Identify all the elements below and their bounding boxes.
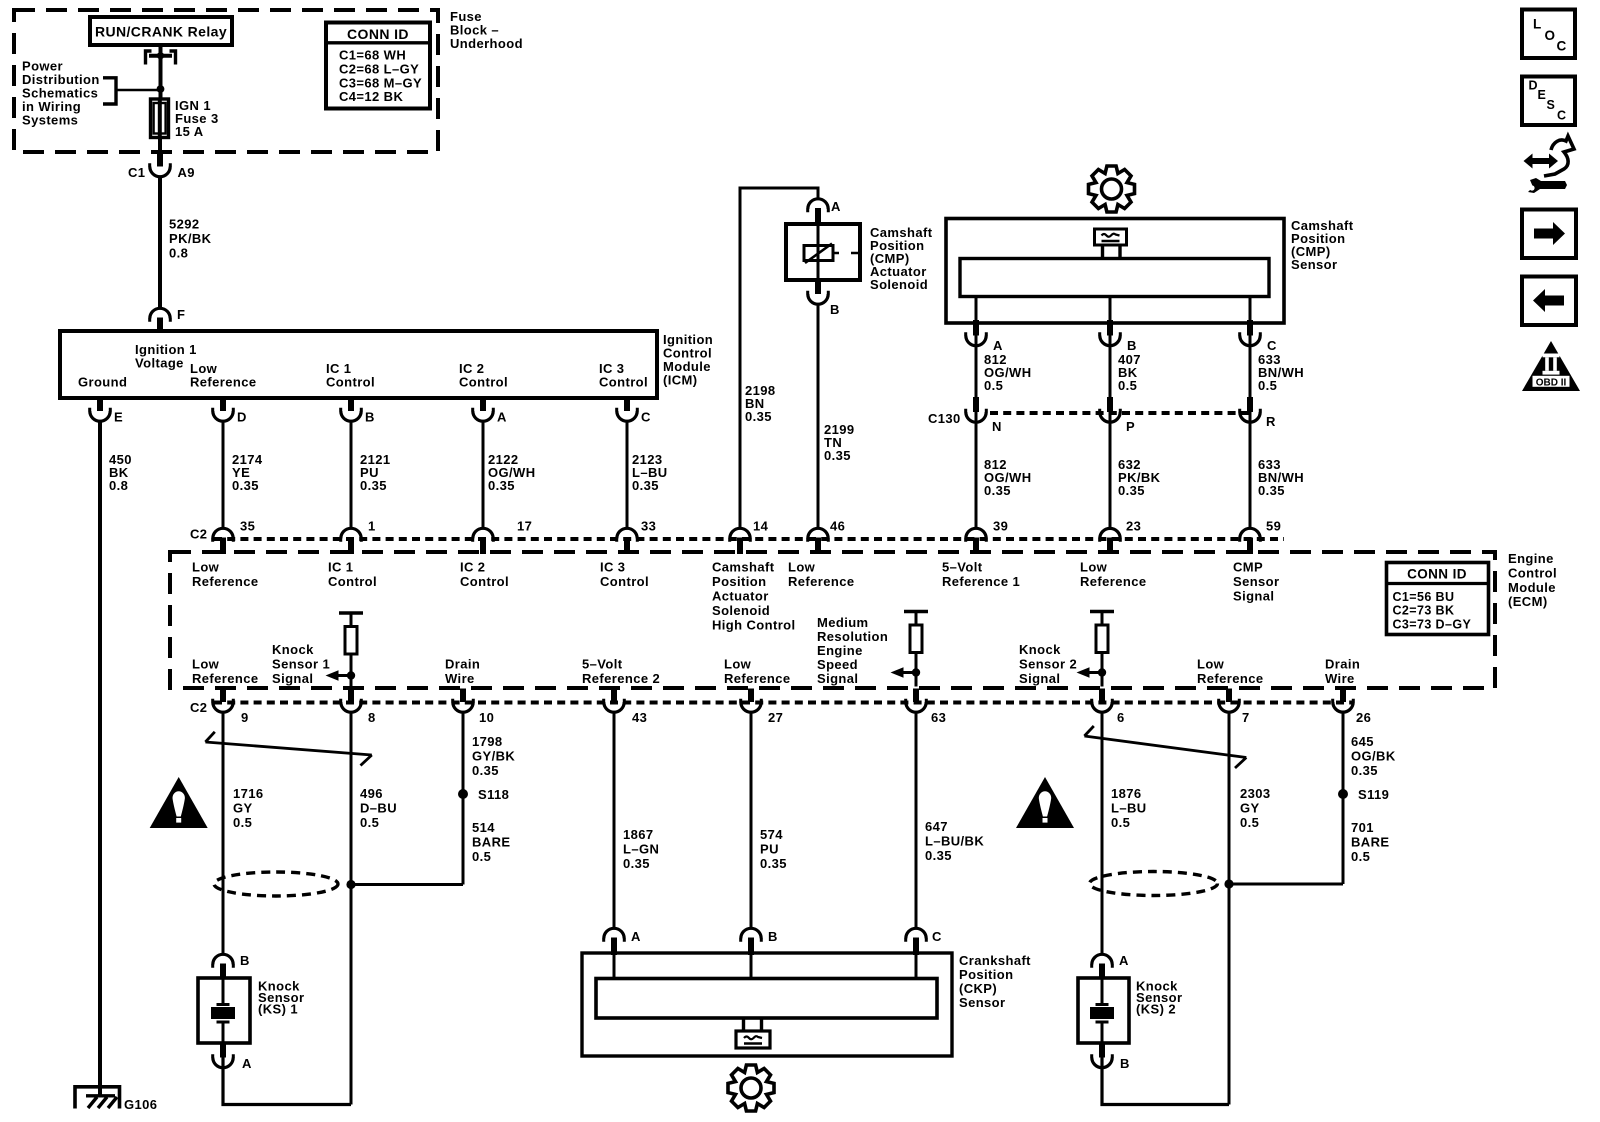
svg-text:OBD II: OBD II [1536,378,1567,389]
wire drain to shield junction KS2 [1229,883,1343,886]
svg-text:CONN ID: CONN ID [347,26,409,42]
svg-text:59: 59 [1266,519,1281,534]
wire 574 PU [750,712,753,928]
label IC 3 Control (pin 33) [600,560,649,590]
wire 633 upper [1249,336,1252,413]
wire label 2122 OG/WH 0.35 [488,452,536,493]
svg-text:Wire: Wire [1325,671,1355,686]
svg-text:D: D [237,410,247,425]
wire 633 lower [1249,412,1252,528]
connector ECM pin 39 [966,528,987,554]
svg-text:Signal: Signal [817,671,858,686]
wire label 2303 GY 0.5 [1240,786,1271,830]
svg-text:Control: Control [326,375,375,390]
connector ECM pin 23 [1100,528,1121,554]
svg-text:701: 701 [1351,820,1374,835]
connector ECM pin 46 [808,528,829,554]
wire 647 L-BU/BK [915,712,918,928]
svg-text:L: L [1533,17,1542,32]
engine control module ECM dashed box [170,552,1495,688]
wire 812 upper [975,336,978,413]
svg-text:BARE: BARE [1351,835,1389,850]
icon OBD II warning triangle [1522,341,1580,391]
camshaft position CMP sensor box [946,219,1284,324]
wire label 450 BK 0.8 [109,452,132,493]
svg-text:Low: Low [724,657,752,672]
gear icon below CKP sensor [728,1065,774,1111]
svg-text:C3=68 M–GY: C3=68 M–GY [339,75,422,90]
wire 2121 [350,421,353,528]
connector C130 pin N [966,397,987,422]
svg-text:(ICM): (ICM) [663,373,698,388]
svg-text:N: N [992,419,1002,434]
label Knock Sensor 1 Signal [272,642,330,686]
label IC 3 Control (ICM) [599,361,648,390]
svg-text:1867: 1867 [623,827,654,842]
wire label 812 OG/WH 0.5 [984,352,1032,393]
CKP sensor hall element [736,1018,770,1048]
svg-text:Signal: Signal [1019,671,1060,686]
label IC 1 Control (pin 1) [328,560,377,590]
node shield junction KS2 [1224,879,1233,888]
wire label 514 BARE 0.5 [472,820,510,864]
wire label 407 BK 0.5 [1118,352,1141,393]
svg-text:0.5: 0.5 [233,815,252,830]
wire label 1716 GY 0.5 [233,786,264,830]
svg-text:Knock: Knock [1019,642,1061,657]
svg-text:Actuator: Actuator [712,589,769,604]
svg-text:F: F [177,307,185,322]
label Engine Control Module (ECM) [1508,551,1557,609]
svg-text:IC 3: IC 3 [600,560,625,575]
label Low Reference (pin 27) [724,657,790,687]
label IGN 1 Fuse 3 15 A [175,98,219,139]
shield ellipse KS1 [214,872,338,896]
svg-text:Voltage: Voltage [135,356,184,371]
shield ellipse KS2 [1090,872,1218,896]
wire label 647 L-BU/BK 0.35 [925,819,984,863]
crankshaft position CKP sensor box [582,953,952,1056]
svg-text:Sensor: Sensor [1291,257,1337,272]
svg-text:Camshaft: Camshaft [712,560,775,575]
ignition control module ICM box [60,331,657,398]
svg-text:Signal: Signal [1233,589,1274,604]
svg-text:S118: S118 [478,787,509,802]
fuse block CONN ID table [326,23,430,109]
svg-text:L–BU/BK: L–BU/BK [925,834,984,849]
svg-text:1798: 1798 [472,734,503,749]
svg-text:C3=73 D–GY: C3=73 D–GY [1393,617,1472,631]
wire label 645 OG/BK 0.35 [1351,734,1396,778]
svg-text:0.35: 0.35 [232,478,259,493]
CMP sensor inner bar [960,259,1269,297]
svg-text:0.5: 0.5 [984,378,1003,393]
wire label 633 BN/WH 0.35 lower [1258,457,1304,498]
svg-text:C1=68 WH: C1=68 WH [339,48,406,63]
label Drain Wire (pin 10) [445,657,480,687]
icon adjust wrench with arrows [1524,136,1575,193]
wire label 2199 TN 0.35 [824,422,855,463]
wire 496 D-BU [350,712,353,1105]
label IC 2 Control (pin 17) [460,560,509,590]
svg-text:0.35: 0.35 [1351,763,1378,778]
label Ignition 1 Voltage [135,342,197,371]
svg-text:0.35: 0.35 [488,478,515,493]
connector ECM pin 14 [730,528,751,554]
wire label 2198 BN 0.35 [745,383,776,424]
svg-text:15 A: 15 A [175,124,204,139]
svg-text:1: 1 [368,519,376,534]
C2 top dotted connector line [214,537,1284,541]
connector ECM pin 17 [473,528,494,554]
connector pin A at CMP sensor [966,320,987,346]
wire label 496 D-BU 0.5 [360,786,397,830]
ECM CONN ID table [1387,563,1489,635]
svg-text:Sensor: Sensor [1233,574,1279,589]
svg-text:Control: Control [460,574,509,589]
connector A at CKP sensor [604,928,625,955]
fuse block - underhood dashed box [14,10,438,152]
resistor R3 knock sensor 2 input [1077,612,1115,687]
resistor R1 knock sensor 1 input [326,613,364,690]
svg-text:5–Volt: 5–Volt [582,657,623,672]
knock sensor KS2 box [1078,978,1129,1043]
connector ECM pin 6 (bottom) [1092,689,1113,713]
connector pin C at ICM bottom [617,396,638,421]
wire label 701 BARE 0.5 [1351,820,1389,864]
svg-text:0.5: 0.5 [1351,849,1370,864]
svg-text:E: E [1538,88,1547,102]
icon forward arrow box [1522,210,1576,259]
svg-text:7: 7 [1242,710,1250,725]
svg-text:14: 14 [753,519,769,534]
svg-text:5–Volt: 5–Volt [942,560,983,575]
svg-text:0.5: 0.5 [472,849,491,864]
svg-text:B: B [1120,1056,1130,1071]
connector A at CMP actuator solenoid [808,199,829,226]
connector A at knock sensor 2 [1092,954,1113,979]
twisted pair marker KS1 [205,732,371,766]
svg-text:C: C [641,410,651,425]
svg-text:(KS) 1: (KS) 1 [258,1002,298,1017]
wire 1876 L-BU [1101,712,1104,954]
svg-text:0.35: 0.35 [360,478,387,493]
wire relay box to contact [159,45,163,57]
label Low Reference (pin 35) [192,560,258,590]
svg-text:Reference: Reference [190,375,256,390]
svg-text:Signal: Signal [272,671,313,686]
wire label 1867 L-GN 0.35 [623,827,659,871]
svg-text:Wire: Wire [445,671,475,686]
knock sensor KS1 box [198,978,250,1043]
ground G106 symbol [75,1087,120,1109]
svg-text:647: 647 [925,819,948,834]
svg-text:0.8: 0.8 [109,478,128,493]
svg-text:Sensor 1: Sensor 1 [272,657,330,672]
svg-text:1716: 1716 [233,786,264,801]
svg-text:CMP: CMP [1233,560,1263,575]
svg-text:Resolution: Resolution [817,629,888,644]
svg-text:E: E [114,410,123,425]
connector pin E at ICM bottom [90,396,111,421]
svg-text:0.35: 0.35 [745,409,772,424]
label Drain Wire (pin 26) [1325,657,1360,687]
svg-text:C2: C2 [190,527,207,542]
wire 5292 to ICM [158,177,162,309]
svg-text:(KS) 2: (KS) 2 [1136,1002,1176,1017]
wire 2123 [626,421,629,528]
wire 2122 [482,421,485,528]
connector B at CKP sensor [741,928,762,955]
svg-text:Underhood: Underhood [450,36,523,51]
svg-text:P: P [1126,419,1135,434]
svg-text:Control: Control [459,375,508,390]
svg-text:Systems: Systems [22,113,78,128]
wire label 2174 YE 0.35 [232,452,263,493]
svg-text:A9: A9 [178,165,195,180]
connector C1 pin A9 [150,151,171,177]
warning triangle 1 [150,777,208,828]
svg-text:Reference: Reference [788,574,854,589]
wire label 2121 PU 0.35 [360,452,391,493]
svg-text:0.8: 0.8 [169,246,188,261]
svg-text:0.35: 0.35 [632,478,659,493]
connector A at knock sensor 1 [213,1043,234,1068]
connector ECM pin 43 (bottom) [604,689,625,713]
svg-text:26: 26 [1356,710,1371,725]
connector ECM pin 1 [341,528,362,554]
svg-text:C: C [932,929,942,944]
svg-text:Reference: Reference [1197,671,1263,686]
svg-text:8: 8 [368,710,376,725]
svg-text:C1: C1 [128,165,145,180]
svg-text:5292: 5292 [169,217,200,232]
svg-text:1876: 1876 [1111,786,1142,801]
icon DESC box [1522,77,1575,126]
connector ECM pin 9 (bottom) [213,689,234,713]
wire 1867 L-GN [613,712,616,928]
svg-text:C: C [1557,39,1567,54]
label Ignition Control Module (ICM) [663,332,713,388]
svg-text:Solenoid: Solenoid [870,277,928,292]
splice S119 [1338,789,1348,799]
svg-text:23: 23 [1126,519,1141,534]
connector ECM pin 7 (bottom) [1219,689,1240,713]
svg-text:GY/BK: GY/BK [472,749,515,764]
label Fuse Block - Underhood [450,9,523,51]
svg-text:Position: Position [959,967,1013,982]
svg-text:C130: C130 [928,411,961,426]
svg-text:A: A [831,199,841,214]
svg-text:B: B [768,929,778,944]
label Knock Sensor 2 Signal [1019,642,1077,686]
node shield junction KS1 [346,880,355,889]
label Crankshaft Position (CKP) Sensor [959,953,1031,1010]
icon LOC box [1522,10,1575,59]
svg-text:Low: Low [192,657,220,672]
svg-text:27: 27 [768,710,783,725]
svg-text:Engine: Engine [1508,551,1554,566]
svg-text:C4=12 BK: C4=12 BK [339,89,403,104]
wire to power distribution bracket [117,89,159,91]
node junction to power distribution [157,85,165,93]
connector pin B at CMP sensor [1100,320,1121,346]
svg-text:IC 1: IC 1 [328,560,353,575]
connector ECM pin 27 (bottom) [741,689,762,713]
svg-text:10: 10 [479,710,494,725]
warning triangle 2 [1016,777,1074,828]
wire 632 lower [1109,412,1112,528]
CKP sensor pin B lead [750,953,753,979]
svg-text:Drain: Drain [1325,657,1360,672]
svg-text:B: B [365,410,375,425]
svg-text:C: C [1557,109,1566,123]
label Low Reference (pin 46) [788,560,854,590]
svg-text:6: 6 [1117,710,1125,725]
svg-text:GY: GY [233,801,253,816]
connector pin C at CMP sensor [1240,320,1261,346]
connector ECM pin 63 (bottom) [906,689,927,713]
wire label 5292 PK/BK 0.8 [169,217,212,261]
label Low Reference (pin 7) [1197,657,1263,687]
svg-text:Control: Control [600,574,649,589]
wire 2198 high control [740,188,818,528]
svg-text:L–BU: L–BU [1111,801,1147,816]
label Camshaft Position (CMP) Sensor [1291,218,1354,272]
label Knock Sensor (KS) 1 [258,979,304,1017]
svg-text:B: B [830,302,840,317]
svg-text:GY: GY [1240,801,1260,816]
wire 645 drain upper [1342,712,1345,884]
svg-text:A: A [242,1056,252,1071]
connector B at knock sensor 1 [213,954,234,979]
svg-text:D–BU: D–BU [360,801,397,816]
svg-text:Module: Module [1508,580,1556,595]
svg-text:C1=56 BU: C1=56 BU [1393,590,1455,604]
wire 1716 GY [222,712,225,954]
C2 bottom dotted connector line [214,701,1354,705]
svg-text:A: A [631,929,641,944]
C130 harness dashed line [990,411,1250,415]
svg-text:496: 496 [360,786,383,801]
svg-text:IC 2: IC 2 [460,560,485,575]
splice S118 [458,789,468,799]
svg-text:Control: Control [328,574,377,589]
svg-text:0.35: 0.35 [760,856,787,871]
wire 1798 drain upper [462,712,465,885]
svg-text:0.35: 0.35 [472,763,499,778]
svg-text:514: 514 [472,820,495,835]
camshaft position actuator solenoid U1 box [786,224,860,280]
fuse F3 IGN 1 15A symbol [151,99,169,138]
wire 407 upper [1109,336,1112,413]
connector F at ICM [150,308,171,331]
svg-text:Speed: Speed [817,657,858,672]
svg-text:9: 9 [241,710,249,725]
svg-text:46: 46 [830,519,845,534]
label Low Reference (pin 9) [192,657,258,687]
svg-text:Reference: Reference [192,671,258,686]
svg-text:39: 39 [993,519,1008,534]
svg-text:B: B [1127,338,1137,353]
svg-text:PK/BK: PK/BK [169,231,212,246]
label 5-Volt Reference 2 [582,657,660,687]
label Low Reference (ICM) [190,361,256,390]
svg-text:Crankshaft: Crankshaft [959,953,1031,968]
wire label 812 OG/WH 0.35 lower [984,457,1032,498]
svg-text:A: A [1119,953,1129,968]
CKP sensor pin A lead [613,953,616,979]
svg-text:0.35: 0.35 [1118,483,1145,498]
connector C130 pin R [1240,397,1261,422]
svg-text:Reference: Reference [724,671,790,686]
wire KS2 B return loop [1102,1058,1229,1105]
svg-text:High Control: High Control [712,618,796,633]
svg-text:0.35: 0.35 [1258,483,1285,498]
svg-text:35: 35 [240,519,255,534]
svg-text:Sensor 2: Sensor 2 [1019,657,1077,672]
wire KS1 A return loop [223,1058,351,1105]
svg-text:645: 645 [1351,734,1374,749]
connector ECM pin 26 (bottom) [1333,689,1354,713]
label Low Reference (pin 23) [1080,560,1146,590]
wire 2174 [222,421,225,528]
svg-text:Sensor: Sensor [959,995,1005,1010]
connector ECM pin 59 [1240,528,1261,554]
connector B at CMP actuator solenoid [808,280,829,304]
svg-text:Reference 1: Reference 1 [942,574,1020,589]
svg-text:Ground: Ground [78,375,127,390]
svg-text:S: S [1547,98,1556,112]
svg-text:C2: C2 [190,700,207,715]
svg-text:B: B [240,953,250,968]
label 5-Volt Reference 1 [942,560,1020,590]
svg-text:S119: S119 [1358,787,1389,802]
svg-text:BARE: BARE [472,835,510,850]
wire label 574 PU 0.35 [760,827,787,871]
svg-text:(ECM): (ECM) [1508,594,1548,609]
svg-text:0.35: 0.35 [925,848,952,863]
svg-text:RUN/CRANK Relay: RUN/CRANK Relay [95,24,227,40]
label CMP Sensor Signal [1233,560,1279,604]
svg-text:0.5: 0.5 [1240,815,1259,830]
svg-text:L–GN: L–GN [623,842,659,857]
connector ECM pin 33 [617,528,638,554]
connector C at CKP sensor [906,928,927,955]
svg-text:R: R [1266,414,1276,429]
svg-text:(CKP): (CKP) [959,981,997,996]
svg-text:17: 17 [517,519,532,534]
svg-text:Control: Control [599,375,648,390]
wire 812 lower [975,412,978,528]
wire fuse to connector C1 [158,137,162,152]
icon back arrow box [1522,277,1576,326]
CMP sensor pin B lead [1109,297,1112,323]
svg-text:0.5: 0.5 [1111,815,1130,830]
connector pin B at ICM bottom [341,396,362,421]
svg-text:Low: Low [788,560,816,575]
wire contact to fuse [159,57,163,100]
svg-text:2303: 2303 [1240,786,1271,801]
wire drain to shield junction [351,883,463,886]
CMP sensor hall element [1095,229,1127,259]
svg-text:Medium: Medium [817,615,869,630]
label Camshaft Position Actuator Solenoid High Control [712,560,796,633]
svg-text:C: C [1267,338,1277,353]
svg-text:Knock: Knock [272,642,314,657]
svg-text:Engine: Engine [817,643,863,658]
connector pin D at ICM bottom [213,396,234,421]
